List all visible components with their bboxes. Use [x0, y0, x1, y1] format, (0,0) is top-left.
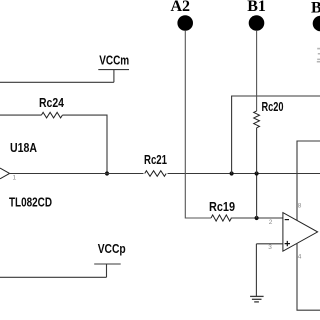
resistor Rc21 [144, 153, 168, 177]
wire VCCp rail from left edge [0, 276, 107, 278]
wire V+ feed from right edge to pin 8 [297, 141, 320, 221]
ground [250, 296, 264, 302]
node junction minus input [255, 216, 259, 220]
wire A2 down to Rc19 row [185, 31, 211, 218]
power symbol VCCm [98, 54, 129, 83]
node junction box corner [230, 171, 234, 175]
node junction at feedback/output [105, 171, 109, 175]
svg-text:VCCm: VCCm [99, 54, 129, 68]
wire summing box to right edge [232, 96, 320, 174]
svg-text:A2: A2 [171, 0, 191, 15]
op-amp U2 [283, 213, 318, 252]
power symbol VCCp [94, 242, 126, 277]
svg-text:VCCp: VCCp [98, 242, 126, 256]
svg-text:2: 2 [269, 219, 273, 226]
wire B1 down to Rc20 [256, 31, 258, 111]
svg-text:1: 1 [13, 175, 17, 182]
resistor Rc24 [39, 96, 64, 118]
connector A2 [171, 0, 194, 31]
wire node to minus row [256, 174, 258, 219]
wire into resistor Rc24 from left edge [0, 114, 41, 116]
wire Rc19 to op-amp inverting input [231, 217, 283, 219]
wire non-inverting input [256, 243, 283, 245]
svg-text:4: 4 [298, 253, 302, 260]
svg-text:Rc19: Rc19 [209, 200, 235, 214]
node junction on output rail [255, 171, 259, 175]
svg-text:3: 3 [268, 244, 272, 251]
wire VCCm rail from left edge [0, 81, 114, 83]
connector B2 (clipped at right edge) [311, 0, 320, 31]
resistor Rc20 (vertical) [254, 100, 284, 128]
wire Rc20 to output rail node [256, 128, 258, 174]
wire U18A output rail [10, 173, 320, 175]
svg-text:Rc24: Rc24 [39, 96, 64, 110]
wire V- pin 4 to right edge [297, 243, 320, 310]
gray clipped marks right edge [317, 48, 320, 63]
op-amp U18A (tip only at left edge) [0, 141, 52, 209]
svg-text:8: 8 [298, 203, 302, 210]
svg-text:Rc21: Rc21 [144, 153, 167, 167]
svg-text:B2: B2 [311, 0, 320, 17]
svg-text:TL082CD: TL082CD [9, 195, 52, 209]
svg-text:B1: B1 [247, 0, 266, 15]
svg-text:U18A: U18A [10, 141, 37, 155]
wire to ground [255, 244, 257, 296]
svg-text:Rc20: Rc20 [262, 100, 284, 114]
connector B1 [247, 0, 266, 31]
wire Rc24 to feedback corner [62, 115, 107, 173]
resistor Rc19 [209, 200, 235, 221]
